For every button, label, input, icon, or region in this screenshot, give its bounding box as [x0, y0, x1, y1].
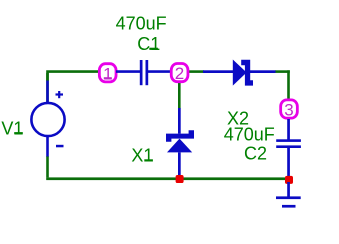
svg-text:C1: C1	[137, 34, 160, 54]
wire top-right corner vertical down to node 3	[287, 70, 290, 100]
zener diode X1 bottom lead	[178, 152, 181, 176]
wire V1 top green stub	[46, 73, 49, 81]
zener diode X2 cathode bar	[241, 60, 253, 86]
ground stem	[287, 182, 290, 197]
junction dot C2/ground/rail	[285, 176, 293, 184]
zener diode X2 right lead	[250, 70, 276, 73]
zener diode X2 body triangle	[233, 60, 247, 86]
svg-text:470uF: 470uF	[116, 14, 167, 34]
svg-text:3: 3	[284, 101, 293, 120]
svg-text:2: 2	[175, 64, 184, 83]
zener diode X1 body triangle	[167, 139, 192, 153]
V1 minus sign	[56, 145, 64, 148]
junction dot X1/rail	[176, 175, 184, 183]
capacitor C2 bottom lead	[287, 148, 290, 176]
svg-text:1: 1	[103, 64, 112, 83]
wire V1 bottom green segment	[46, 156, 49, 177]
capacitor C1 plates	[140, 60, 148, 85]
capacitor C1 leads	[116, 70, 172, 73]
zener diode X2 left lead	[203, 70, 233, 73]
zener diode X1 cathode bar	[166, 130, 194, 142]
svg-text:470uF: 470uF	[224, 124, 275, 144]
wire node2 down green segment	[178, 82, 181, 109]
svg-text:C2: C2	[244, 144, 267, 164]
node 3	[281, 100, 298, 120]
wire X2 to top-right corner green	[275, 70, 290, 73]
node 2	[171, 64, 188, 84]
wire node2 to X2 green	[188, 70, 204, 73]
zener diode X1 top lead	[178, 108, 181, 134]
node 1	[99, 64, 116, 84]
capacitor C2 plates	[276, 139, 301, 148]
ground bar 1	[276, 196, 301, 199]
svg-text:X1: X1	[131, 146, 153, 166]
svg-text:V1: V1	[1, 118, 23, 138]
capacitor C2 top lead	[287, 119, 290, 140]
ground bar 2	[282, 205, 296, 208]
wire bottom rail	[46, 177, 285, 180]
voltage source V1	[31, 81, 64, 157]
wire top-left horizontal from V1 corner to node 1	[46, 70, 98, 102]
V1 plus sign	[56, 91, 64, 98]
